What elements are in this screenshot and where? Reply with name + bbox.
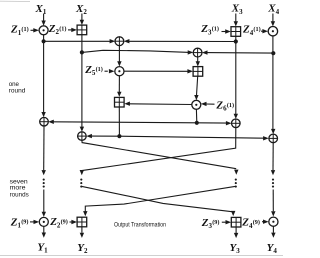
multiplier U4 (X4*Z4)	[268, 27, 277, 36]
key label Z1(1)	[10, 24, 39, 37]
wire U1 output down column 1	[43, 35, 45, 113]
label seven more rounds	[10, 178, 29, 198]
key label Z6(1)	[201, 99, 234, 112]
adder U2 (X2+Z2)	[77, 25, 87, 35]
node X3 input label	[231, 3, 243, 16]
scan smudge top	[0, 0, 30, 2]
adder U10 (Y2=+Z2(9))	[77, 217, 87, 227]
wire U7 output across (y=122)	[48, 120, 231, 126]
wire junction col1 to XOR A	[44, 39, 116, 43]
node elision col2	[80, 179, 82, 188]
wire U5 to adder U6	[124, 69, 193, 73]
wire junction col3 to XOR A	[124, 39, 236, 43]
wire U7 to adder U8	[124, 102, 191, 106]
wire Y1 output	[42, 226, 46, 237]
wire U4 output down column 4	[272, 36, 274, 129]
multiplier U7 (Z6)	[192, 100, 201, 109]
adder U11 (Y3=+Z3(9))	[231, 217, 241, 227]
wire U7 output down	[195, 109, 197, 123]
key label Z3(9)	[201, 217, 231, 230]
wire XOR F output down	[271, 143, 275, 176]
wire X3 input	[234, 14, 238, 27]
wire U6 to multiplier U7	[194, 76, 198, 100]
svg-text:rounds: rounds	[10, 191, 29, 198]
wire col4 to output transform	[271, 190, 275, 217]
wire X1 input	[41, 14, 45, 26]
key label Z4(1)	[242, 24, 268, 37]
xor gate D (round out 2)	[78, 132, 87, 141]
key label Z1(9)	[10, 216, 39, 229]
wire U8 output down	[118, 107, 120, 136]
wire col3 cross to Y2 adder	[83, 186, 236, 216]
wire junction col4 to XOR B	[202, 50, 273, 54]
wire XOR B to adder U6	[196, 57, 200, 67]
svg-text:round: round	[9, 87, 26, 94]
multiplier U1 (X1*Z1)	[39, 26, 48, 35]
junction node col4/XORB	[271, 51, 275, 55]
wire U3 output down column 3	[235, 36, 237, 114]
node elision col3	[235, 179, 237, 188]
junction node col3/XORA	[234, 39, 238, 43]
wire X2 input	[80, 14, 84, 26]
wire U8 output across (y=136)	[86, 134, 268, 141]
key label Z2(9)	[49, 216, 77, 229]
junction node col2/XORB	[80, 50, 84, 54]
wire U5 down to adder U8	[117, 76, 121, 97]
xor gate C (round out 1)	[40, 117, 49, 126]
xor gate A (steps 1,3)	[115, 37, 124, 46]
wire col2 cross to Y3 adder	[81, 186, 235, 216]
wire Y4 output	[271, 226, 275, 238]
node elision col4	[272, 179, 274, 188]
xor gate F (round out 4)	[269, 134, 278, 143]
adder U6 (step 8)	[193, 67, 203, 77]
wire XOR E output cross to col2	[80, 128, 236, 176]
wire XOR D output cross to col3	[82, 140, 239, 174]
key label Z4(9)	[241, 217, 268, 230]
multiplier U9 (Y1=*Z1(9))	[39, 217, 48, 226]
adder U3 (X3+Z3)	[231, 27, 241, 37]
wire col1 to output transform	[42, 190, 46, 217]
scan rule bottom	[0, 254, 283, 256]
wire Y3 output	[234, 227, 238, 238]
node elision col1	[43, 179, 45, 188]
junction node col1/XORA	[42, 39, 46, 43]
label output transformation	[114, 222, 166, 228]
node X4 input label	[267, 3, 279, 16]
wire junction col2 to XOR B	[82, 50, 193, 54]
svg-text:Output Transformation: Output Transformation	[114, 222, 166, 228]
node Y3 output label	[230, 242, 241, 255]
wire col3 arrow into XOR E	[234, 114, 238, 119]
node X1 input label	[35, 3, 47, 16]
wire col2 arrow into XOR D	[80, 127, 84, 132]
wire XOR A to multiplier U5	[117, 46, 121, 67]
multiplier U12 (Y4=*Z4(9))	[269, 217, 278, 226]
wire U2 output down column 2	[81, 35, 83, 127]
xor gate E (round out 3)	[232, 119, 241, 128]
wire Y2 output	[80, 227, 84, 238]
adder U8 (step 10)	[115, 97, 125, 107]
key label Z5(1)	[84, 64, 114, 77]
junction node U8-output	[117, 134, 121, 138]
node Y4 output label	[267, 242, 278, 255]
junction node U7-output	[195, 121, 199, 125]
wire X4 input	[271, 14, 275, 27]
node X2 input label	[75, 3, 87, 16]
wire XOR C output down	[42, 126, 46, 175]
key label Z3(1)	[200, 23, 231, 36]
label one round	[9, 81, 26, 94]
multiplier U5 (Z5)	[115, 67, 124, 76]
wire col1 arrow into XOR C	[41, 112, 45, 117]
key label Z2(1)	[48, 23, 77, 36]
node Y1 output label	[37, 241, 48, 254]
wire col4 arrow into XOR F	[271, 129, 275, 134]
xor gate B (steps 2,4)	[193, 48, 202, 57]
node Y2 output label	[77, 242, 88, 255]
